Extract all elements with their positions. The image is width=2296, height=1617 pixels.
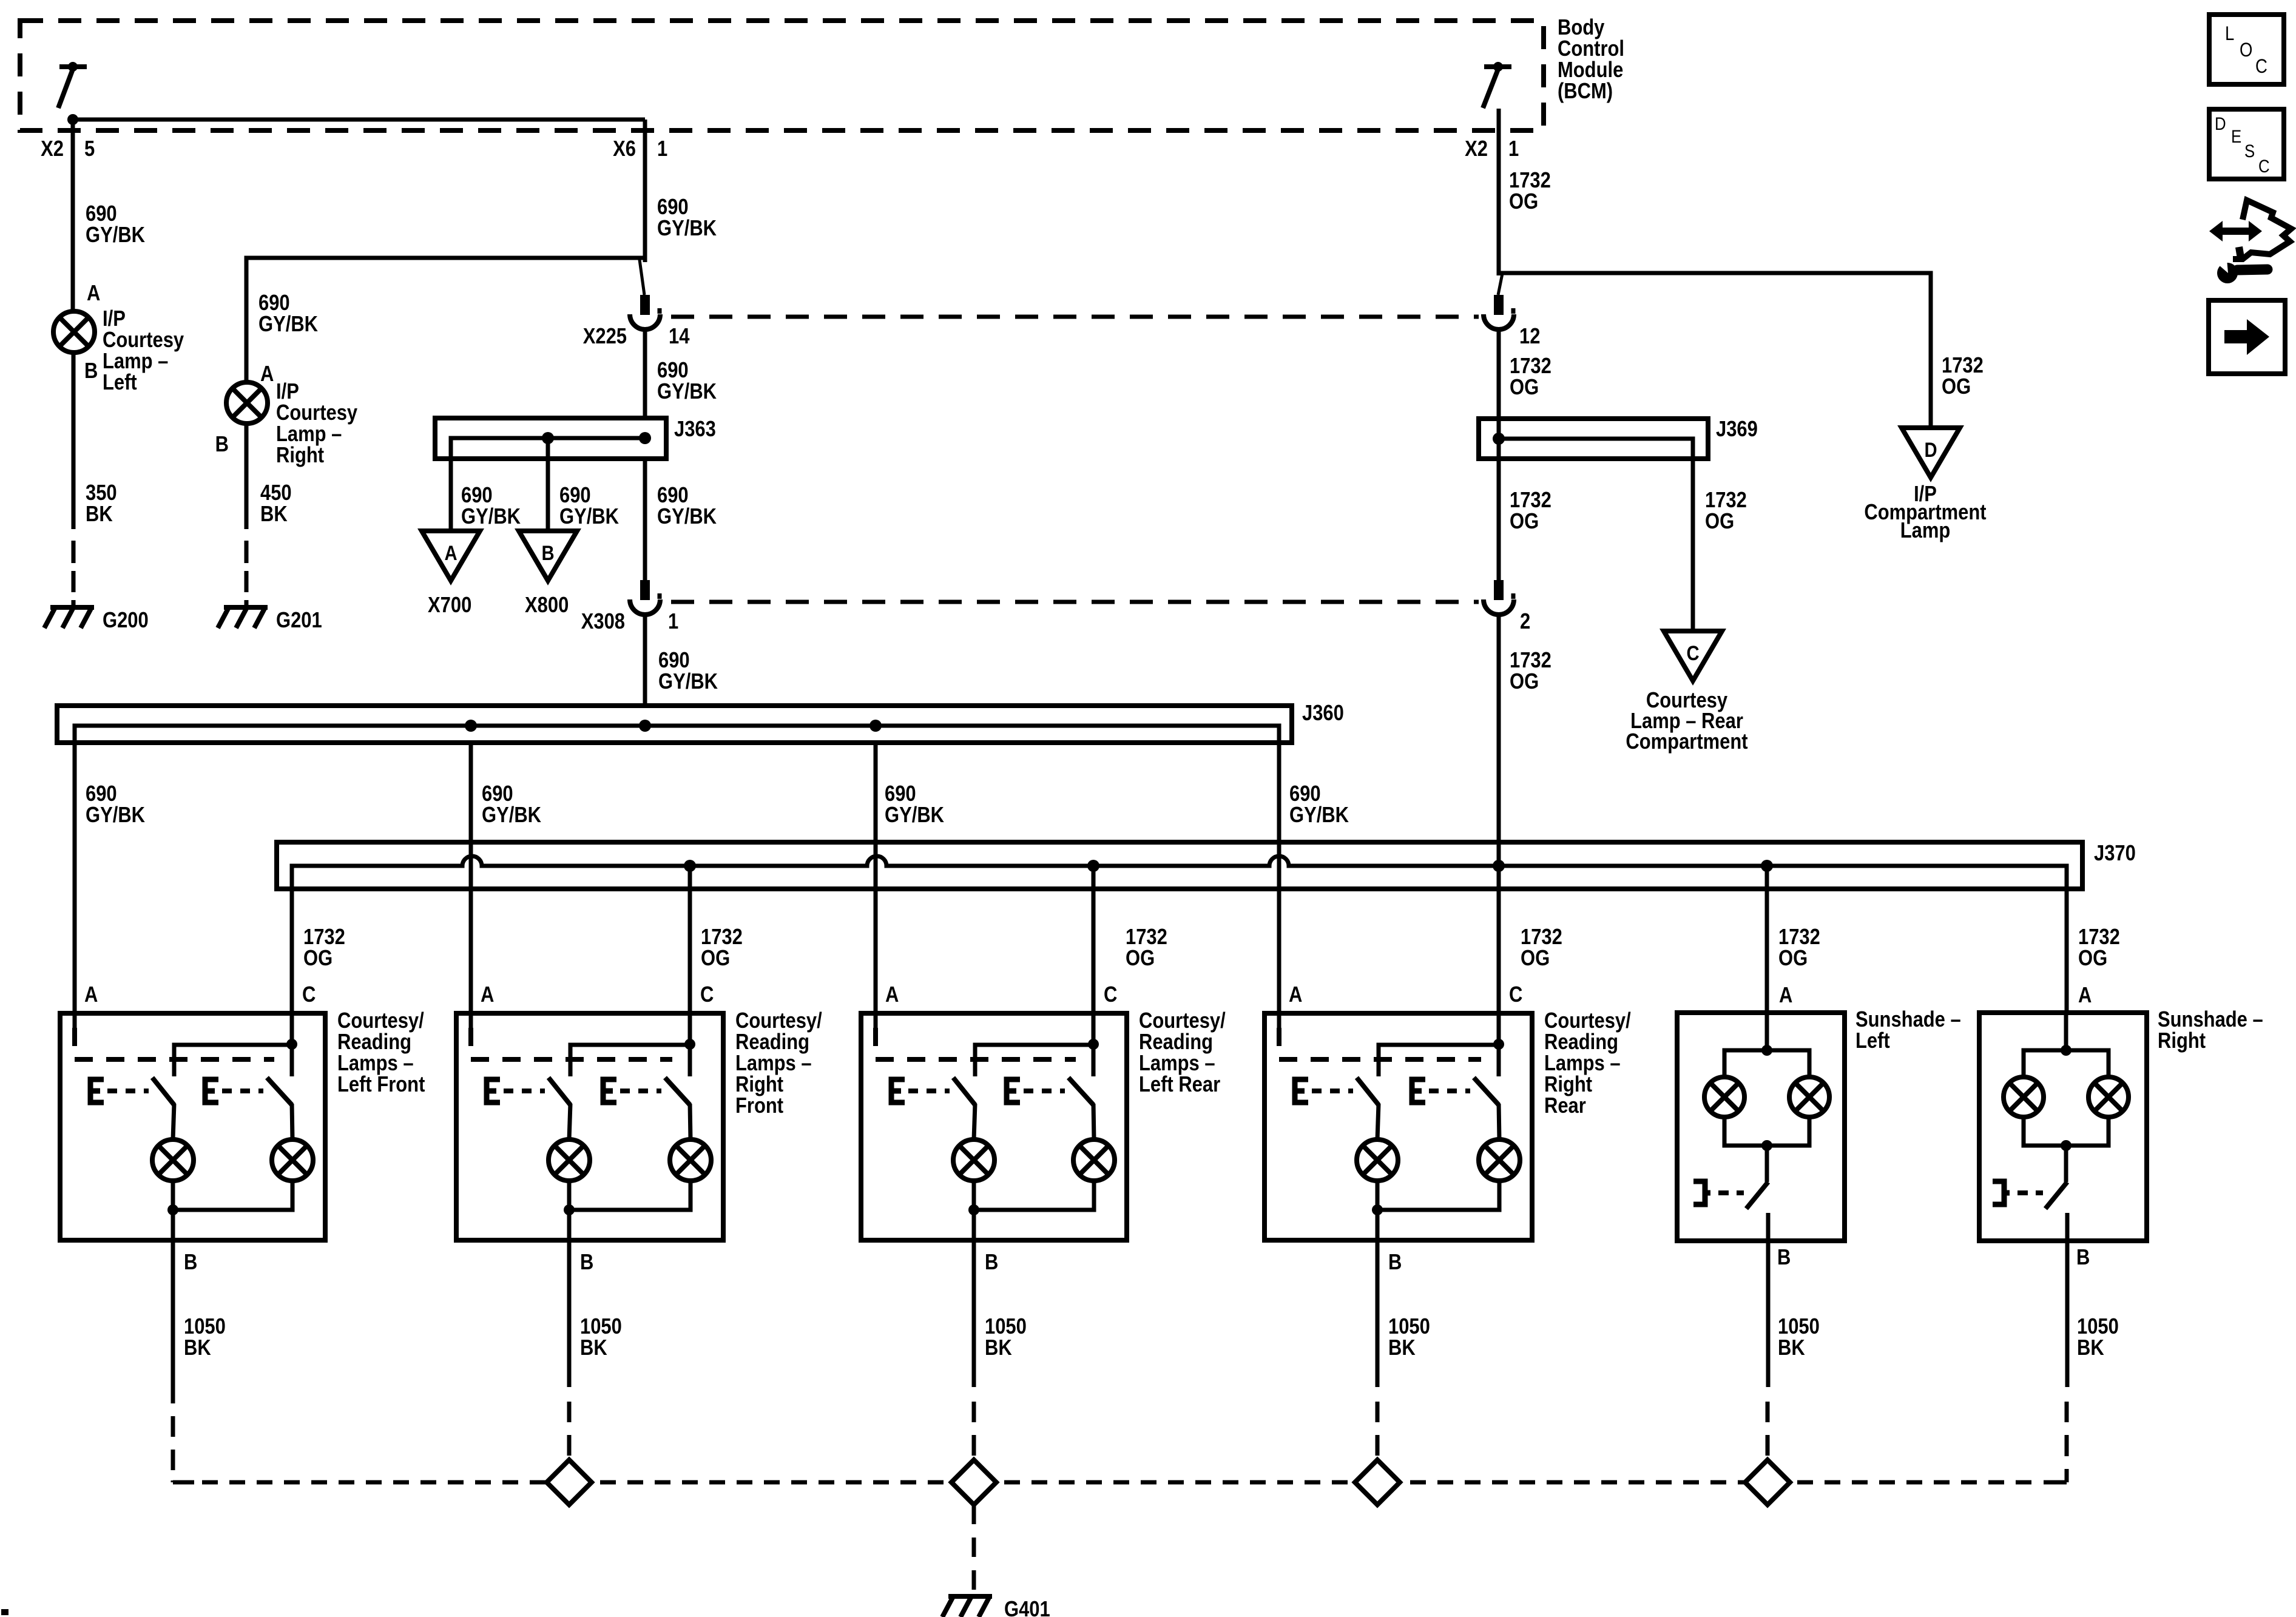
svg-text:690: 690 <box>258 291 290 316</box>
courtesy/reading lamps left front junction dot at C <box>286 1039 297 1050</box>
svg-text:C: C <box>2258 156 2270 176</box>
courtesy/reading lamps right front switch 2 blade <box>665 1078 690 1105</box>
svg-text:Courtesy: Courtesy <box>276 401 357 425</box>
sunshade right split dot <box>2061 1045 2071 1056</box>
svg-text:Left: Left <box>1855 1029 1890 1053</box>
svg-text:A: A <box>444 541 457 565</box>
courtesy/reading lamps left rear switch 2 to lamp 2 <box>1093 1104 1094 1139</box>
courtesy/reading lamps right rear join dot <box>1372 1204 1383 1215</box>
courtesy/reading lamps right front pin A stub <box>469 1013 473 1028</box>
svg-text:C: C <box>1104 983 1117 1007</box>
svg-text:X225: X225 <box>583 325 627 349</box>
svg-text:C: C <box>1509 983 1522 1007</box>
courtesy/reading lamps left rear switch 2 blade <box>1069 1078 1093 1105</box>
svg-text:BK: BK <box>260 502 288 527</box>
wire 1732 OG J370 to lamps LF pin C <box>290 866 294 1013</box>
splice J370 internal bus with hops <box>292 856 2067 889</box>
svg-text:1050: 1050 <box>184 1315 226 1339</box>
svg-text:BK: BK <box>985 1336 1012 1360</box>
sunshade left lamp return bus <box>1724 1117 1809 1146</box>
svg-text:1: 1 <box>668 610 678 634</box>
courtesy/reading lamps right rear lamp 1 <box>1357 1139 1398 1181</box>
svg-text:Left Front: Left Front <box>337 1073 425 1097</box>
svg-text:OG: OG <box>1778 947 1808 971</box>
courtesy/reading lamps right rear switch 1 actuator <box>1295 1079 1308 1102</box>
svg-text:A: A <box>2078 984 2092 1008</box>
svg-text:Lamps –: Lamps – <box>1544 1052 1621 1076</box>
wire 1732 OG between connectors <box>1497 331 1501 580</box>
svg-text:Sunshade –: Sunshade – <box>1855 1008 1961 1032</box>
svg-text:Body: Body <box>1558 16 1605 40</box>
sunshade left switch blade <box>1746 1182 1768 1209</box>
sunshade left box <box>1677 1013 1845 1241</box>
courtesy/reading lamps left rear lamp 2 <box>1073 1139 1115 1181</box>
svg-text:GY/BK: GY/BK <box>86 223 145 248</box>
junction dot J370 lamps LR C <box>1087 860 1099 872</box>
svg-text:Right: Right <box>1544 1073 1592 1097</box>
courtesy/reading lamps right rear junction dot at C <box>1493 1039 1504 1050</box>
svg-text:GY/BK: GY/BK <box>657 505 717 529</box>
junction dot J370 lamps RF C <box>684 860 696 872</box>
courtesy/reading lamps left front pin C wire to junction <box>290 1013 294 1076</box>
dashed ground bus segment 0 <box>202 1480 547 1485</box>
dashed ground lead lamps LF <box>171 1416 175 1437</box>
junction dot J360 tap3 <box>869 720 882 732</box>
dashed ground lead lamps LR <box>972 1402 976 1422</box>
courtesy/reading lamps right front lamp 2 <box>670 1139 711 1181</box>
svg-text:X2: X2 <box>1465 137 1488 161</box>
connector triangle B (X800) <box>519 531 577 581</box>
svg-text:1732: 1732 <box>1521 925 1562 950</box>
wire 690 GY/BK tap to X800 <box>546 438 550 531</box>
connector X308 pin 2 (inline, right) <box>1494 580 1504 600</box>
svg-text:OG: OG <box>2078 947 2107 971</box>
dashed ground lead sunshade left <box>1766 1402 1770 1422</box>
svg-text:Courtesy/: Courtesy/ <box>337 1009 424 1033</box>
svg-text:Courtesy/: Courtesy/ <box>1544 1009 1631 1033</box>
svg-text:OG: OG <box>1705 510 1734 534</box>
svg-text:O: O <box>2240 39 2252 61</box>
svg-text:690: 690 <box>461 484 493 508</box>
splice J360 box <box>57 706 1292 743</box>
svg-text:5: 5 <box>84 137 95 161</box>
connector X225 pin 14 (inline) <box>640 295 650 315</box>
svg-text:B: B <box>1388 1251 1402 1275</box>
svg-text:GY/BK: GY/BK <box>1289 803 1349 828</box>
courtesy/reading lamps left rear junction dot at C <box>1088 1039 1099 1050</box>
svg-text:B: B <box>985 1251 998 1275</box>
svg-text:GY/BK: GY/BK <box>482 803 541 828</box>
courtesy/reading lamps right front lamp 1 <box>549 1139 590 1181</box>
courtesy/reading lamps left front pin A stub <box>73 1013 77 1028</box>
courtesy/reading lamps left front switch 1 blade <box>152 1078 174 1105</box>
svg-text:Left: Left <box>103 371 137 395</box>
svg-text:OG: OG <box>1521 947 1550 971</box>
courtesy/reading lamps left rear switch 2 actuator <box>1007 1079 1020 1102</box>
wire 1732 OG J369 tap to courtesy lamp rear <box>1691 459 1695 631</box>
svg-text:J363: J363 <box>674 417 716 442</box>
sunshade left lamp 2 <box>1789 1077 1829 1117</box>
wire 1732 OG J370 to sunshade left pin A <box>1765 866 1769 1013</box>
dashed lead to ground G200 <box>72 541 76 563</box>
sunshade right return dot <box>2061 1140 2071 1151</box>
wire 1732 OG X308-2 down to splice J370 and lamps RR pin C <box>1497 616 1501 1013</box>
svg-text:690: 690 <box>1289 782 1321 806</box>
sunshade right lamp 2 <box>2088 1077 2129 1117</box>
wire from BCM S1 to X6 pin 1 (horizontal) <box>73 118 645 122</box>
svg-text:1732: 1732 <box>701 925 743 950</box>
svg-text:OG: OG <box>1126 947 1155 971</box>
svg-text:690: 690 <box>482 782 513 806</box>
svg-text:B: B <box>215 433 229 457</box>
wire 690 GY/BK from J363 to connector X308 <box>643 459 647 580</box>
svg-text:Courtesy: Courtesy <box>103 328 184 353</box>
svg-text:(BCM): (BCM) <box>1558 79 1613 104</box>
wire 1732 OG J369 to connector X308 pin 2 <box>1497 459 1501 580</box>
splice diamond lamps RR <box>1355 1460 1400 1505</box>
svg-text:Right: Right <box>735 1073 783 1097</box>
svg-text:G200: G200 <box>103 609 149 633</box>
courtesy/reading lamps left front box <box>60 1013 325 1240</box>
dashed ground bus segment 2 <box>1004 1480 1357 1485</box>
svg-text:A: A <box>84 983 98 1007</box>
icon DESC box <box>2209 109 2284 179</box>
splice diamond sunshade left <box>1745 1460 1790 1505</box>
courtesy/reading lamps left rear switch 1 actuator <box>891 1079 905 1102</box>
connector X225 pin 12 (inline, right) <box>1494 295 1504 315</box>
courtesy/reading lamps right front switch 2 to lamp 2 <box>690 1104 690 1139</box>
svg-text:350: 350 <box>86 481 117 505</box>
courtesy/reading lamps right front switch 1 to lamp 1 <box>569 1104 570 1139</box>
svg-text:1732: 1732 <box>1510 649 1551 673</box>
BCM internal switch S2 (drives X2-1) <box>1484 64 1511 69</box>
courtesy/reading lamps left rear internal feed to switch 1 <box>975 1045 1093 1076</box>
dashed lead diamond to ground G401 <box>972 1505 976 1595</box>
dashed ground bus segment 4 <box>1797 1480 2036 1485</box>
courtesy/reading lamps left rear lamp output join <box>974 1181 1094 1210</box>
wire 690 GY/BK to I/P courtesy lamp left <box>71 258 75 311</box>
svg-text:690: 690 <box>657 484 689 508</box>
svg-text:B: B <box>84 359 98 383</box>
svg-text:OG: OG <box>1942 375 1971 399</box>
courtesy/reading lamps left rear switch 1 to lamp 1 <box>974 1104 975 1139</box>
sunshade right wire 1050 BK <box>2065 1241 2070 1387</box>
icon LOC box <box>2209 15 2284 84</box>
courtesy/reading lamps right rear pin C wire to junction <box>1497 1013 1501 1076</box>
connector X308 pin 1 (inline) <box>640 580 650 600</box>
svg-text:Courtesy/: Courtesy/ <box>1139 1009 1226 1033</box>
courtesy/reading lamps left rear lamp 1 <box>953 1139 994 1181</box>
svg-text:C: C <box>1686 641 1699 665</box>
wire 1732 OG J370 to sunshade right pin A <box>2065 866 2069 1013</box>
splice J369 internal bus <box>1499 439 1693 459</box>
svg-text:B: B <box>1777 1246 1791 1270</box>
svg-text:Right: Right <box>2158 1029 2206 1053</box>
svg-text:1: 1 <box>657 137 667 161</box>
sunshade left pin A wire to split <box>1765 1013 1769 1050</box>
ground G200 <box>50 605 94 610</box>
courtesy/reading lamps left front internal dashed control line from A <box>75 1028 274 1059</box>
svg-text:Lamps –: Lamps – <box>735 1052 812 1076</box>
sunshade right switch actuator <box>1993 1181 2010 1204</box>
svg-text:S: S <box>2244 141 2255 161</box>
svg-text:Control: Control <box>1558 37 1624 61</box>
svg-text:1050: 1050 <box>985 1315 1027 1339</box>
svg-text:Lamps –: Lamps – <box>1139 1052 1215 1076</box>
svg-text:14: 14 <box>669 325 690 349</box>
svg-text:690: 690 <box>885 782 916 806</box>
svg-text:B: B <box>580 1251 593 1275</box>
sunshade right wire to switch <box>2064 1146 2068 1182</box>
sunshade left split dot <box>1761 1045 1772 1056</box>
sunshade right switch blade <box>2045 1182 2067 1209</box>
svg-text:1732: 1732 <box>1510 354 1551 379</box>
svg-text:X800: X800 <box>525 593 569 618</box>
wire 690 GY/BK tap to X700 <box>449 438 453 531</box>
sunshade left wire 1050 BK <box>1766 1241 1771 1387</box>
courtesy/reading lamps right rear switch 1 to lamp 1 <box>1377 1104 1379 1139</box>
svg-text:690: 690 <box>86 202 117 226</box>
svg-text:B: B <box>2076 1246 2090 1270</box>
svg-text:1050: 1050 <box>2077 1315 2119 1339</box>
svg-text:690: 690 <box>559 484 591 508</box>
courtesy/reading lamps left front switch 2 actuator <box>205 1079 218 1102</box>
junction dot J360 tap2 <box>465 720 477 732</box>
courtesy/reading lamps right front join dot <box>564 1204 575 1215</box>
svg-text:OG: OG <box>701 947 730 971</box>
lamp I/P Courtesy Lamp - Right <box>226 382 268 424</box>
junction dot J370 feed <box>1493 860 1505 872</box>
courtesy/reading lamps right rear wire 1050 BK <box>1376 1240 1380 1387</box>
svg-text:Lamp: Lamp <box>1900 519 1951 543</box>
wire jog into connector X225-12 <box>1498 274 1502 295</box>
courtesy/reading lamps left front lamp 1 <box>152 1139 194 1181</box>
wire 1732 OG from BCM X2-1 down <box>1497 109 1501 275</box>
svg-text:B: B <box>541 541 554 565</box>
svg-text:X6: X6 <box>613 137 636 161</box>
svg-text:Right: Right <box>276 444 324 468</box>
svg-text:1: 1 <box>1508 137 1519 161</box>
svg-text:X700: X700 <box>428 593 471 618</box>
dashed ground bus segment 1 <box>600 1480 951 1485</box>
svg-text:Lamps –: Lamps – <box>337 1052 414 1076</box>
connector triangle D (I/P compartment lamp) <box>1902 428 1960 478</box>
svg-text:X2: X2 <box>41 137 64 161</box>
courtesy/reading lamps right front pin C wire to junction <box>688 1013 692 1076</box>
wire 690 GY/BK from X308 to splice J360 <box>643 616 647 706</box>
svg-text:1732: 1732 <box>1705 488 1747 513</box>
dashed ground lead lamps RR <box>1376 1402 1380 1422</box>
sunshade left return dot <box>1761 1140 1772 1151</box>
svg-text:Lamp –: Lamp – <box>103 349 168 374</box>
junction dot J360 feed <box>639 720 651 732</box>
svg-text:D: D <box>1924 438 1937 462</box>
wire 1732 OG J370 to lamps RF pin C <box>688 866 692 1013</box>
icon removal/installation (double arrow, panel, wrench) <box>2209 221 2262 241</box>
lamp I/P Courtesy Lamp - Left <box>53 311 95 353</box>
svg-text:OG: OG <box>1509 190 1538 214</box>
svg-text:GY/BK: GY/BK <box>559 505 619 529</box>
wire 1732 OG J370 to lamps LR pin C <box>1092 866 1096 1013</box>
svg-text:1050: 1050 <box>1388 1315 1430 1339</box>
wire 690 GY/BK J360 to lamps LF pin A <box>73 743 77 1013</box>
svg-text:Module: Module <box>1558 58 1623 83</box>
svg-text:Rear: Rear <box>1544 1094 1586 1118</box>
wire 690 GY/BK branch to I/P courtesy lamp right <box>246 258 645 382</box>
wire BCM S1 down through X2 pin 5 <box>71 117 75 258</box>
courtesy/reading lamps left front wire 1050 BK <box>171 1240 175 1403</box>
courtesy/reading lamps right front switch 2 actuator <box>603 1079 616 1102</box>
svg-text:C: C <box>700 983 714 1007</box>
svg-text:C: C <box>302 983 316 1007</box>
wire 1732 OG X225-12 to splice J369 <box>1497 331 1501 419</box>
courtesy/reading lamps right rear switch 2 actuator <box>1412 1079 1425 1102</box>
svg-text:GY/BK: GY/BK <box>657 217 717 241</box>
courtesy/reading lamps left rear internal dashed control line from A <box>876 1028 1076 1059</box>
courtesy/reading lamps right rear internal feed to switch 1 <box>1379 1045 1499 1076</box>
svg-text:OG: OG <box>1510 376 1539 400</box>
splice J363 box <box>435 418 666 459</box>
sunshade left lamp feed bus <box>1724 1050 1809 1077</box>
wire jog into connector X225 <box>640 260 644 295</box>
courtesy/reading lamps right rear switch 2 to lamp 2 <box>1499 1104 1499 1139</box>
courtesy/reading lamps right rear lamp output join <box>1377 1181 1499 1210</box>
svg-text:690: 690 <box>657 195 689 220</box>
svg-text:690: 690 <box>658 649 690 673</box>
svg-text:BK: BK <box>184 1336 211 1360</box>
dashed ground lead sunshade right <box>2065 1402 2069 1422</box>
svg-text:B: B <box>184 1251 197 1275</box>
svg-text:A: A <box>1289 983 1302 1007</box>
svg-text:1732: 1732 <box>1126 925 1167 950</box>
courtesy/reading lamps left front pin B wire <box>171 1210 175 1240</box>
courtesy/reading lamps right rear lamp 2 <box>1479 1139 1520 1181</box>
courtesy/reading lamps right rear internal dashed control line from A <box>1279 1028 1481 1059</box>
courtesy/reading lamps left front switch 1 to lamp 1 <box>173 1104 174 1139</box>
dashed pass-to-connector line at X308 level <box>671 600 1479 604</box>
icon next-page arrow box <box>2209 300 2285 374</box>
svg-text:I/P: I/P <box>276 380 299 404</box>
svg-text:Reading: Reading <box>735 1030 809 1055</box>
courtesy/reading lamps left front switch 1 actuator <box>90 1079 104 1102</box>
sunshade left wire to switch <box>1765 1146 1769 1182</box>
dashed ground bus segment 3 <box>1410 1480 1744 1485</box>
courtesy/reading lamps right front wire 1050 BK <box>567 1240 572 1387</box>
svg-text:450: 450 <box>260 481 292 505</box>
courtesy/reading lamps right front internal feed to switch 1 <box>570 1045 690 1076</box>
splice J369 box <box>1479 419 1708 459</box>
svg-text:OG: OG <box>1510 510 1539 534</box>
connector triangle A (X700) <box>422 531 480 581</box>
sunshade right pin A wire to split <box>2064 1013 2068 1050</box>
splice J363 internal bus <box>451 438 645 459</box>
wire 690 GY/BK from X6-1 to branch corner <box>643 120 647 262</box>
courtesy/reading lamps right rear switch 2 blade <box>1474 1078 1499 1105</box>
svg-text:1732: 1732 <box>1778 925 1820 950</box>
wire 1732 OG branch to I/P compartment lamp <box>1499 273 1931 428</box>
ground G401 <box>948 1594 992 1599</box>
BCM internal switch S1 (drives X2-5 / X6-1) <box>59 64 87 69</box>
courtesy/reading lamps left rear pin A stub <box>874 1013 878 1028</box>
svg-text:BK: BK <box>86 502 113 527</box>
courtesy/reading lamps right rear pin B wire <box>1376 1210 1380 1240</box>
svg-text:Reading: Reading <box>1544 1030 1618 1055</box>
Body Control Module (BCM) dashed outline <box>20 21 1544 130</box>
icon next-page arrow <box>2224 319 2269 355</box>
courtesy/reading lamps right front box <box>456 1013 723 1240</box>
ground G201 <box>224 605 268 610</box>
svg-text:1050: 1050 <box>1778 1315 1820 1339</box>
sunshade right lamp return bus <box>2024 1117 2109 1146</box>
sunshade left switch actuator <box>1693 1181 1710 1204</box>
courtesy/reading lamps right rear pin A stub <box>1277 1013 1281 1028</box>
svg-text:690: 690 <box>86 782 117 806</box>
svg-text:Reading: Reading <box>337 1030 411 1055</box>
splice diamond lamps LR <box>951 1460 996 1505</box>
wire 450 BK below lamp <box>245 424 249 529</box>
svg-text:GY/BK: GY/BK <box>461 505 521 529</box>
svg-text:OG: OG <box>1510 670 1539 694</box>
junction dot J363 main <box>639 432 651 444</box>
svg-text:BK: BK <box>580 1336 607 1360</box>
courtesy/reading lamps right front internal dashed control line from A <box>471 1028 672 1059</box>
courtesy/reading lamps left rear wire 1050 BK <box>972 1240 976 1387</box>
wire 690 GY/BK J360 to lamps RR pin A <box>1277 743 1281 1013</box>
svg-text:I/P: I/P <box>103 307 126 331</box>
svg-text:G401: G401 <box>1004 1598 1050 1617</box>
dashed lead to ground G201 <box>245 541 249 563</box>
svg-text:A: A <box>885 983 899 1007</box>
svg-text:J370: J370 <box>2094 842 2136 866</box>
junction dot J363 tap X800 <box>542 432 554 444</box>
sunshade left lamp 1 <box>1704 1077 1744 1117</box>
svg-text:GY/BK: GY/BK <box>885 803 944 828</box>
wire 350 BK below lamp <box>72 353 76 529</box>
stray page mark bottom-left <box>1 1609 8 1615</box>
svg-text:GY/BK: GY/BK <box>658 670 718 694</box>
svg-text:Compartment: Compartment <box>1626 730 1747 754</box>
svg-text:Sunshade –: Sunshade – <box>2158 1008 2263 1032</box>
wire 690 GY/BK J360 to lamps LR pin A <box>874 743 878 1013</box>
courtesy/reading lamps right rear switch 1 blade <box>1357 1078 1379 1105</box>
svg-text:1732: 1732 <box>303 925 345 950</box>
wire 690 GY/BK J360 to lamps RF pin A <box>469 743 473 1013</box>
courtesy/reading lamps right front lamp output join <box>569 1181 690 1210</box>
svg-text:Lamp –: Lamp – <box>276 422 342 447</box>
svg-text:1732: 1732 <box>1942 354 1984 378</box>
splice J360 internal bus <box>75 726 1279 743</box>
courtesy/reading lamps right front junction dot at C <box>684 1039 695 1050</box>
courtesy/reading lamps left front switch 2 to lamp 2 <box>292 1104 292 1139</box>
dashed pass-to-connector line at X225 level <box>671 315 1479 319</box>
svg-text:BK: BK <box>2077 1336 2104 1360</box>
svg-text:1732: 1732 <box>1509 169 1551 193</box>
svg-text:1732: 1732 <box>2078 925 2120 950</box>
svg-text:BK: BK <box>1778 1336 1805 1360</box>
svg-text:2: 2 <box>1520 610 1530 634</box>
courtesy/reading lamps right front pin B wire <box>567 1210 572 1240</box>
svg-text:690: 690 <box>657 359 689 383</box>
svg-text:A: A <box>481 983 494 1007</box>
splice J370 box <box>277 842 2082 889</box>
svg-text:J360: J360 <box>1302 701 1344 726</box>
svg-text:Front: Front <box>735 1094 783 1118</box>
sunshade right box <box>1979 1013 2147 1241</box>
svg-text:E: E <box>2231 126 2241 146</box>
courtesy/reading lamps left rear pin B wire <box>972 1210 976 1240</box>
svg-text:C: C <box>2255 56 2267 77</box>
svg-text:L: L <box>2225 23 2234 44</box>
